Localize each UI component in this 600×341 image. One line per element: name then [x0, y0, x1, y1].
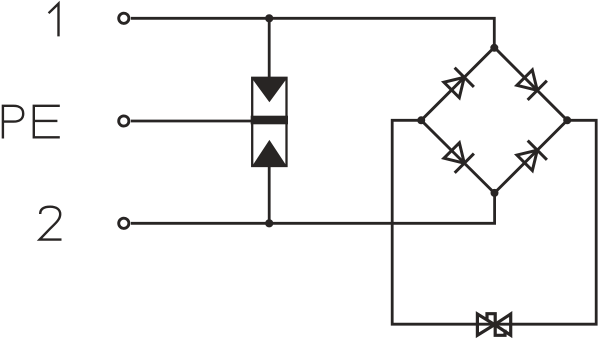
diode D2 on top-right edge (pointing to right vertex): triangle — [517, 70, 537, 90]
rectifier bridge: bottom-left edge wire — [421, 120, 494, 193]
terminal circle PE — [119, 116, 129, 126]
diode D1 on top-left edge (pointing to top vertex): triangle — [444, 77, 464, 97]
node: bridge left vertex — [417, 116, 425, 124]
junction node on line 2 — [265, 219, 273, 227]
diode D3 cathode bar — [455, 154, 474, 173]
diode D2 cathode bar — [528, 81, 547, 100]
junction node on line 1 — [265, 14, 273, 22]
terminal circle 1 — [119, 13, 129, 23]
node: bridge bottom vertex — [491, 189, 499, 197]
label terminal PE — [3, 106, 60, 139]
rectifier bridge: bottom-right edge wire — [494, 120, 567, 193]
TVS suppressor diode V1: right triangle — [495, 314, 511, 335]
node: bridge top vertex — [490, 44, 498, 52]
surge arrester F1 (three-electrode, between 1 and 2 with PE electrode): body rectangle — [252, 78, 286, 166]
surge arrester F1: upper filled triangle (pointing down) — [252, 79, 287, 103]
rectifier bridge: top-right edge wire — [494, 47, 567, 120]
wire: terminal 2 to bridge bottom vertex — [131, 193, 495, 223]
diode D3 on bottom-left edge (pointing to bottom vertex): triangle — [444, 143, 464, 163]
wire: loop from bridge left vertex down, along bottom, up to right vertex — [392, 120, 596, 324]
wire: arrester bottom to line 2 junction — [268, 166, 271, 223]
diode D4 on bottom-right edge (pointing to right vertex): triangle — [517, 150, 537, 170]
surge arrester F1: lower filled triangle (pointing up) — [252, 140, 287, 166]
diode D1 cathode bar — [455, 68, 474, 87]
TVS suppressor diode V1 (bidirectional) at bottom: left triangle — [477, 314, 494, 335]
TVS suppressor diode V1: zener electrode bar with bent ends — [487, 314, 505, 336]
surge arrester F1: middle electrode bar — [251, 116, 288, 125]
wire: terminal PE to arrester middle electrode — [131, 120, 252, 123]
label terminal 2 — [40, 207, 62, 240]
diode D4 cathode bar — [528, 141, 547, 160]
label terminal 1 — [49, 4, 59, 37]
node: bridge right vertex — [563, 116, 571, 124]
wire: line 1 junction down to arrester — [268, 18, 271, 78]
terminal circle 2 — [119, 218, 129, 228]
rectifier bridge: top-left edge wire — [421, 47, 494, 120]
wire: terminal 1 to bridge top vertex — [131, 18, 494, 47]
